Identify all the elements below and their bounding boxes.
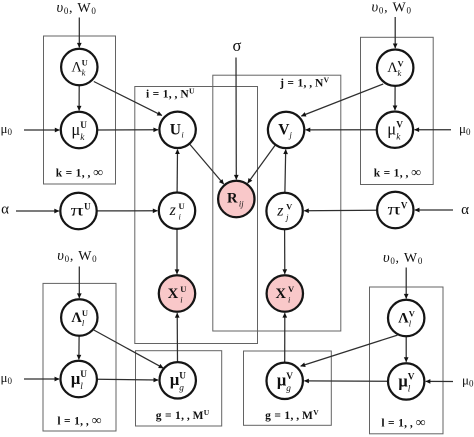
svg-text:g = 1, , MU: g = 1, , MU bbox=[156, 408, 210, 422]
svg-text:σ: σ bbox=[233, 36, 242, 55]
svg-text:V: V bbox=[278, 121, 290, 138]
svg-text:Λ: Λ bbox=[398, 311, 409, 327]
svg-text:α: α bbox=[1, 202, 9, 218]
svg-text:V: V bbox=[396, 121, 403, 131]
svg-text:U: U bbox=[82, 308, 88, 318]
svg-text:α: α bbox=[461, 202, 469, 218]
svg-text:U: U bbox=[82, 58, 88, 68]
svg-text:υ0, W0: υ0, W0 bbox=[56, 0, 96, 16]
svg-text:π: π bbox=[71, 203, 84, 220]
svg-text:X: X bbox=[168, 286, 179, 302]
svg-text:U: U bbox=[179, 371, 186, 381]
svg-text:U: U bbox=[80, 370, 87, 380]
svg-text:ij: ij bbox=[239, 199, 244, 209]
svg-text:k: k bbox=[82, 68, 86, 78]
svg-text:υ0, W0: υ0, W0 bbox=[57, 248, 97, 264]
svg-text:U: U bbox=[170, 121, 181, 138]
svg-text:j = 1, , NV: j = 1, , NV bbox=[279, 76, 330, 90]
svg-text:g = 1, , MV: g = 1, , MV bbox=[265, 408, 319, 422]
svg-text:U: U bbox=[180, 284, 186, 294]
svg-text:l: l bbox=[80, 382, 83, 392]
svg-text:V: V bbox=[398, 58, 405, 68]
svg-text:l = 1, , ∞: l = 1, , ∞ bbox=[381, 415, 425, 430]
svg-text:k: k bbox=[398, 68, 402, 78]
svg-text:U: U bbox=[80, 121, 87, 131]
svg-text:i = 1, , NU: i = 1, , NU bbox=[146, 87, 195, 101]
svg-text:V: V bbox=[288, 284, 295, 294]
svg-text:V: V bbox=[408, 372, 415, 382]
svg-text:V: V bbox=[286, 372, 293, 382]
svg-text:U: U bbox=[84, 202, 91, 212]
svg-text:μ: μ bbox=[387, 120, 396, 139]
svg-text:g: g bbox=[179, 383, 184, 393]
svg-text:R: R bbox=[227, 191, 238, 207]
svg-text:g: g bbox=[286, 384, 291, 394]
svg-text:k = 1, , ∞: k = 1, , ∞ bbox=[374, 165, 422, 180]
svg-text:k = 1, , ∞: k = 1, , ∞ bbox=[56, 165, 104, 180]
svg-text:μ: μ bbox=[71, 120, 80, 139]
svg-text:π: π bbox=[388, 202, 401, 219]
svg-text:z: z bbox=[169, 202, 177, 219]
svg-text:U: U bbox=[179, 201, 185, 211]
svg-text:z: z bbox=[276, 203, 284, 220]
svg-text:V: V bbox=[409, 309, 416, 319]
svg-text:υ0, W0: υ0, W0 bbox=[383, 250, 423, 266]
svg-text:Λ: Λ bbox=[71, 310, 82, 326]
svg-text:X: X bbox=[276, 286, 287, 302]
svg-text:V: V bbox=[401, 201, 408, 211]
svg-text:V: V bbox=[286, 202, 293, 212]
svg-text:l = 1, , ∞: l = 1, , ∞ bbox=[57, 413, 101, 428]
svg-text:υ0, W0: υ0, W0 bbox=[372, 0, 412, 16]
svg-text:l: l bbox=[408, 384, 411, 394]
